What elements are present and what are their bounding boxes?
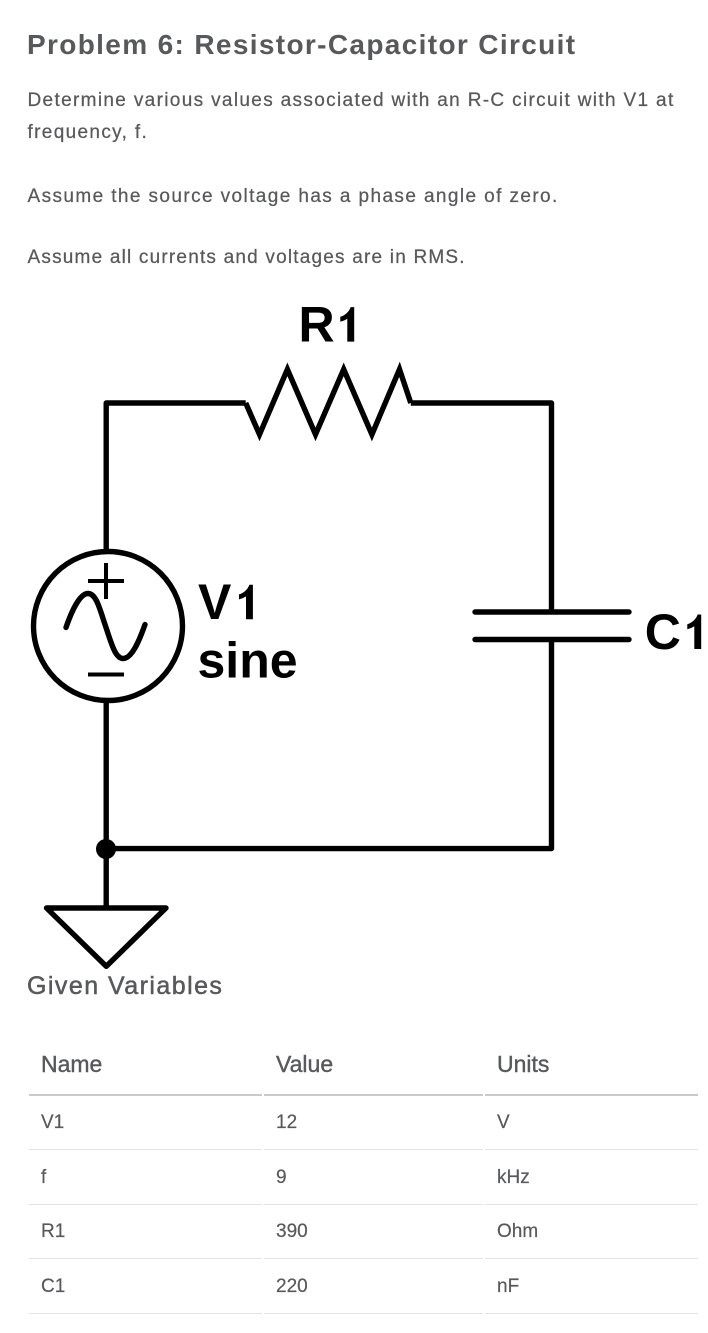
plus sign	[88, 563, 124, 599]
svg-text:C: C	[645, 604, 681, 660]
svg-text:V: V	[198, 574, 232, 630]
voltage source V1 circle	[34, 552, 183, 701]
ground symbol	[47, 908, 167, 966]
minus sign	[88, 673, 124, 677]
svg-text:R: R	[299, 297, 335, 353]
wire junction to ground	[103, 849, 108, 908]
sine wave inside source	[66, 594, 145, 659]
junction node dot	[96, 839, 116, 859]
wire top-left: from left vertical corner to resistor start	[106, 403, 246, 552]
wire source bottom: from source to junction	[103, 700, 108, 849]
capacitor C1 bottom plate	[475, 637, 629, 642]
svg-text:sine: sine	[198, 633, 298, 689]
wire right-bottom: from capacitor bottom plate to bottom wire	[106, 640, 551, 849]
wire top-right: from resistor end to capacitor top plate	[411, 403, 552, 612]
resistor R1	[246, 369, 411, 434]
capacitor C1 top plate	[475, 609, 629, 614]
